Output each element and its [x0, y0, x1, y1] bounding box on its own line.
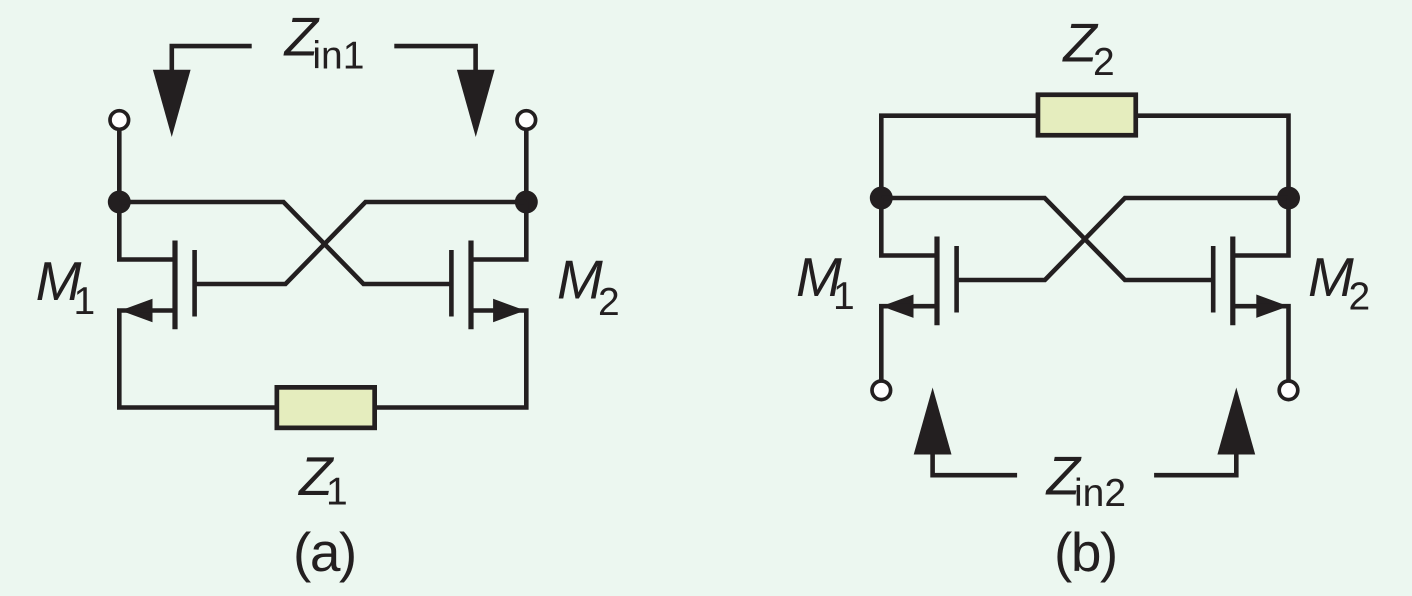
- svg-text:M: M: [557, 249, 603, 311]
- label M2 (b): [1308, 246, 1370, 319]
- svg-text:in2: in2: [1074, 472, 1126, 515]
- transistor M1 (b): [882, 237, 957, 326]
- svg-text:2: 2: [1349, 275, 1371, 318]
- Zin2 arrow right: [1154, 388, 1255, 476]
- wire: [119, 311, 277, 408]
- terminal left (b): [872, 381, 891, 400]
- transistor M2 (b): [1213, 237, 1288, 326]
- label Z1: [297, 445, 348, 514]
- impedance Z2: [1038, 95, 1136, 136]
- svg-text:1: 1: [833, 275, 855, 318]
- wire: [471, 202, 526, 260]
- transistor M1: [121, 241, 195, 330]
- wire: [881, 306, 937, 381]
- label M2 (a): [557, 249, 620, 325]
- label Zin1: [283, 6, 365, 78]
- svg-text:(b): (b): [1054, 521, 1117, 583]
- wire: [524, 128, 529, 202]
- wire drain M1 to gate M2 (b): [881, 198, 1215, 280]
- svg-text:(a): (a): [293, 521, 356, 583]
- terminal left (a): [110, 111, 129, 130]
- wire: [1138, 116, 1289, 198]
- svg-text:2: 2: [1093, 41, 1115, 84]
- Zin1 arrow left: [153, 46, 252, 137]
- label Zin2: [1045, 445, 1127, 516]
- impedance Z1: [277, 387, 375, 428]
- wire: [375, 311, 527, 408]
- wire drain M2 to gate M1 (b): [955, 198, 1289, 280]
- label Z2: [1061, 12, 1114, 85]
- wire drain M2 to gate M1 (a): [196, 202, 526, 284]
- wire: [1233, 306, 1289, 381]
- svg-text:2: 2: [598, 281, 620, 324]
- node drain M1 (b): [870, 187, 893, 210]
- label M1 (b): [796, 246, 855, 318]
- terminal right (b): [1279, 381, 1298, 400]
- wire: [881, 198, 937, 256]
- svg-text:in1: in1: [312, 35, 364, 78]
- svg-text:1: 1: [326, 471, 348, 514]
- svg-text:1: 1: [74, 280, 96, 323]
- Zin2 arrow left: [914, 388, 1017, 476]
- transistor M2: [451, 241, 525, 330]
- label M1 (a): [36, 250, 96, 323]
- wire: [119, 202, 175, 260]
- node drain M2 (a): [515, 191, 538, 214]
- svg-text:M: M: [1308, 246, 1354, 308]
- Zin1 arrow right: [394, 46, 494, 137]
- terminal right (a): [517, 111, 536, 130]
- wire: [1233, 198, 1289, 256]
- wire: [881, 116, 1036, 198]
- wire drain M1 to gate M2 (a): [119, 202, 453, 284]
- node drain M1 (a): [108, 191, 131, 214]
- wire: [117, 128, 122, 202]
- node drain M2 (b): [1277, 187, 1300, 210]
